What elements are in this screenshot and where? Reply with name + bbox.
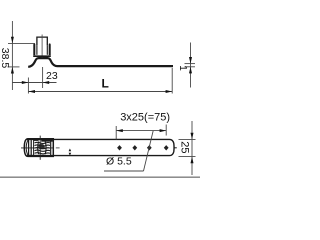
dim 25: bottom extension line xyxy=(179,156,196,158)
dim 38.5: upper arrow (points down) xyxy=(11,37,14,44)
dim 25: lower arrow (points up) xyxy=(191,157,194,164)
dim 3x25: left arrow (points left) xyxy=(116,129,123,132)
page rule line xyxy=(0,176,200,178)
leader oblique line through hole 3 xyxy=(144,131,154,171)
dim 23: left extension line xyxy=(27,78,29,94)
bolt centerline xyxy=(41,35,43,58)
clamp head center dark cluster xyxy=(38,144,44,149)
dim 1: lower arrow (points up) xyxy=(189,67,192,74)
wire strap profile with hump xyxy=(28,58,173,67)
hole 2 xyxy=(132,145,137,150)
thickness mark (double arrow) xyxy=(69,149,72,152)
leader for hole dia: horizontal reference line xyxy=(104,170,144,172)
dim L: dimension line xyxy=(28,91,172,93)
dim 38.5: lower arrow (points up) xyxy=(11,67,14,74)
clamp head inner vertical 3 xyxy=(33,139,35,156)
nut bottom line xyxy=(33,55,51,57)
dim 3x25(=75): dimension line xyxy=(116,130,166,132)
bolt shaft xyxy=(37,37,47,45)
dim L: right extension line xyxy=(171,68,173,94)
svg-text:L: L xyxy=(102,77,109,91)
dim 23: right outside arrow (points left) xyxy=(43,81,50,84)
clamp head inner vertical 1 xyxy=(28,139,30,156)
strap top edge xyxy=(27,139,174,155)
dim 38.5: bottom extension tick xyxy=(8,66,20,68)
clamp head dark top cap xyxy=(41,139,52,141)
clamp head inner vertical 4 xyxy=(50,139,52,156)
dim 38.5: dimension line xyxy=(11,21,13,90)
dim 25: top extension line xyxy=(179,138,196,140)
hole 3 xyxy=(147,145,152,150)
svg-text:3x25(=75): 3x25(=75) xyxy=(120,112,170,124)
dim 3x25: right extension line xyxy=(165,125,167,136)
dim 23: left outside arrow (points right) xyxy=(22,81,29,84)
svg-text:25: 25 xyxy=(178,141,190,153)
svg-text:1: 1 xyxy=(177,65,188,71)
svg-text:23: 23 xyxy=(46,70,58,82)
strap end axis tick xyxy=(174,147,176,149)
nut left facet xyxy=(33,43,35,55)
dim 38.5: top extension tick xyxy=(8,42,35,44)
dim 23: dimension line with tails xyxy=(12,82,56,84)
dim 25: upper arrow (points down) xyxy=(191,133,194,140)
dim 3x25: right arrow (points right) xyxy=(160,129,167,132)
dim 25 (width): dimension line xyxy=(191,121,193,175)
dim L: right arrow (points right) xyxy=(166,90,173,93)
dim 1: upper extension tick xyxy=(185,63,196,65)
clamp head bottom edge thickening xyxy=(29,155,41,157)
clamp head thread texture xyxy=(35,142,51,155)
dim 3x25: left extension line xyxy=(115,126,117,140)
dim 1 (thickness): dimension line xyxy=(190,43,192,88)
nut right facet xyxy=(49,43,51,55)
dim 1: upper arrow (points down) xyxy=(189,57,192,64)
clamp head axis horizontal centerline xyxy=(21,147,54,149)
clamp head inner vertical 2 xyxy=(30,139,32,156)
svg-text:38.5: 38.5 xyxy=(0,48,11,69)
dim L: left arrow (points left) xyxy=(28,90,35,93)
dim 1: lower extension tick xyxy=(185,66,196,68)
dim 23: right extension line (bolt axis extended) xyxy=(42,67,44,88)
clamp head axis vertical centerline xyxy=(39,136,41,160)
clamp head inner cap arc xyxy=(26,140,28,156)
clamp head top edge dashes xyxy=(34,139,39,141)
hole 4 xyxy=(164,145,169,150)
hole 1 xyxy=(117,145,122,150)
clamp head outline (left end) xyxy=(24,139,53,157)
svg-text:Ø 5.5: Ø 5.5 xyxy=(106,156,132,168)
